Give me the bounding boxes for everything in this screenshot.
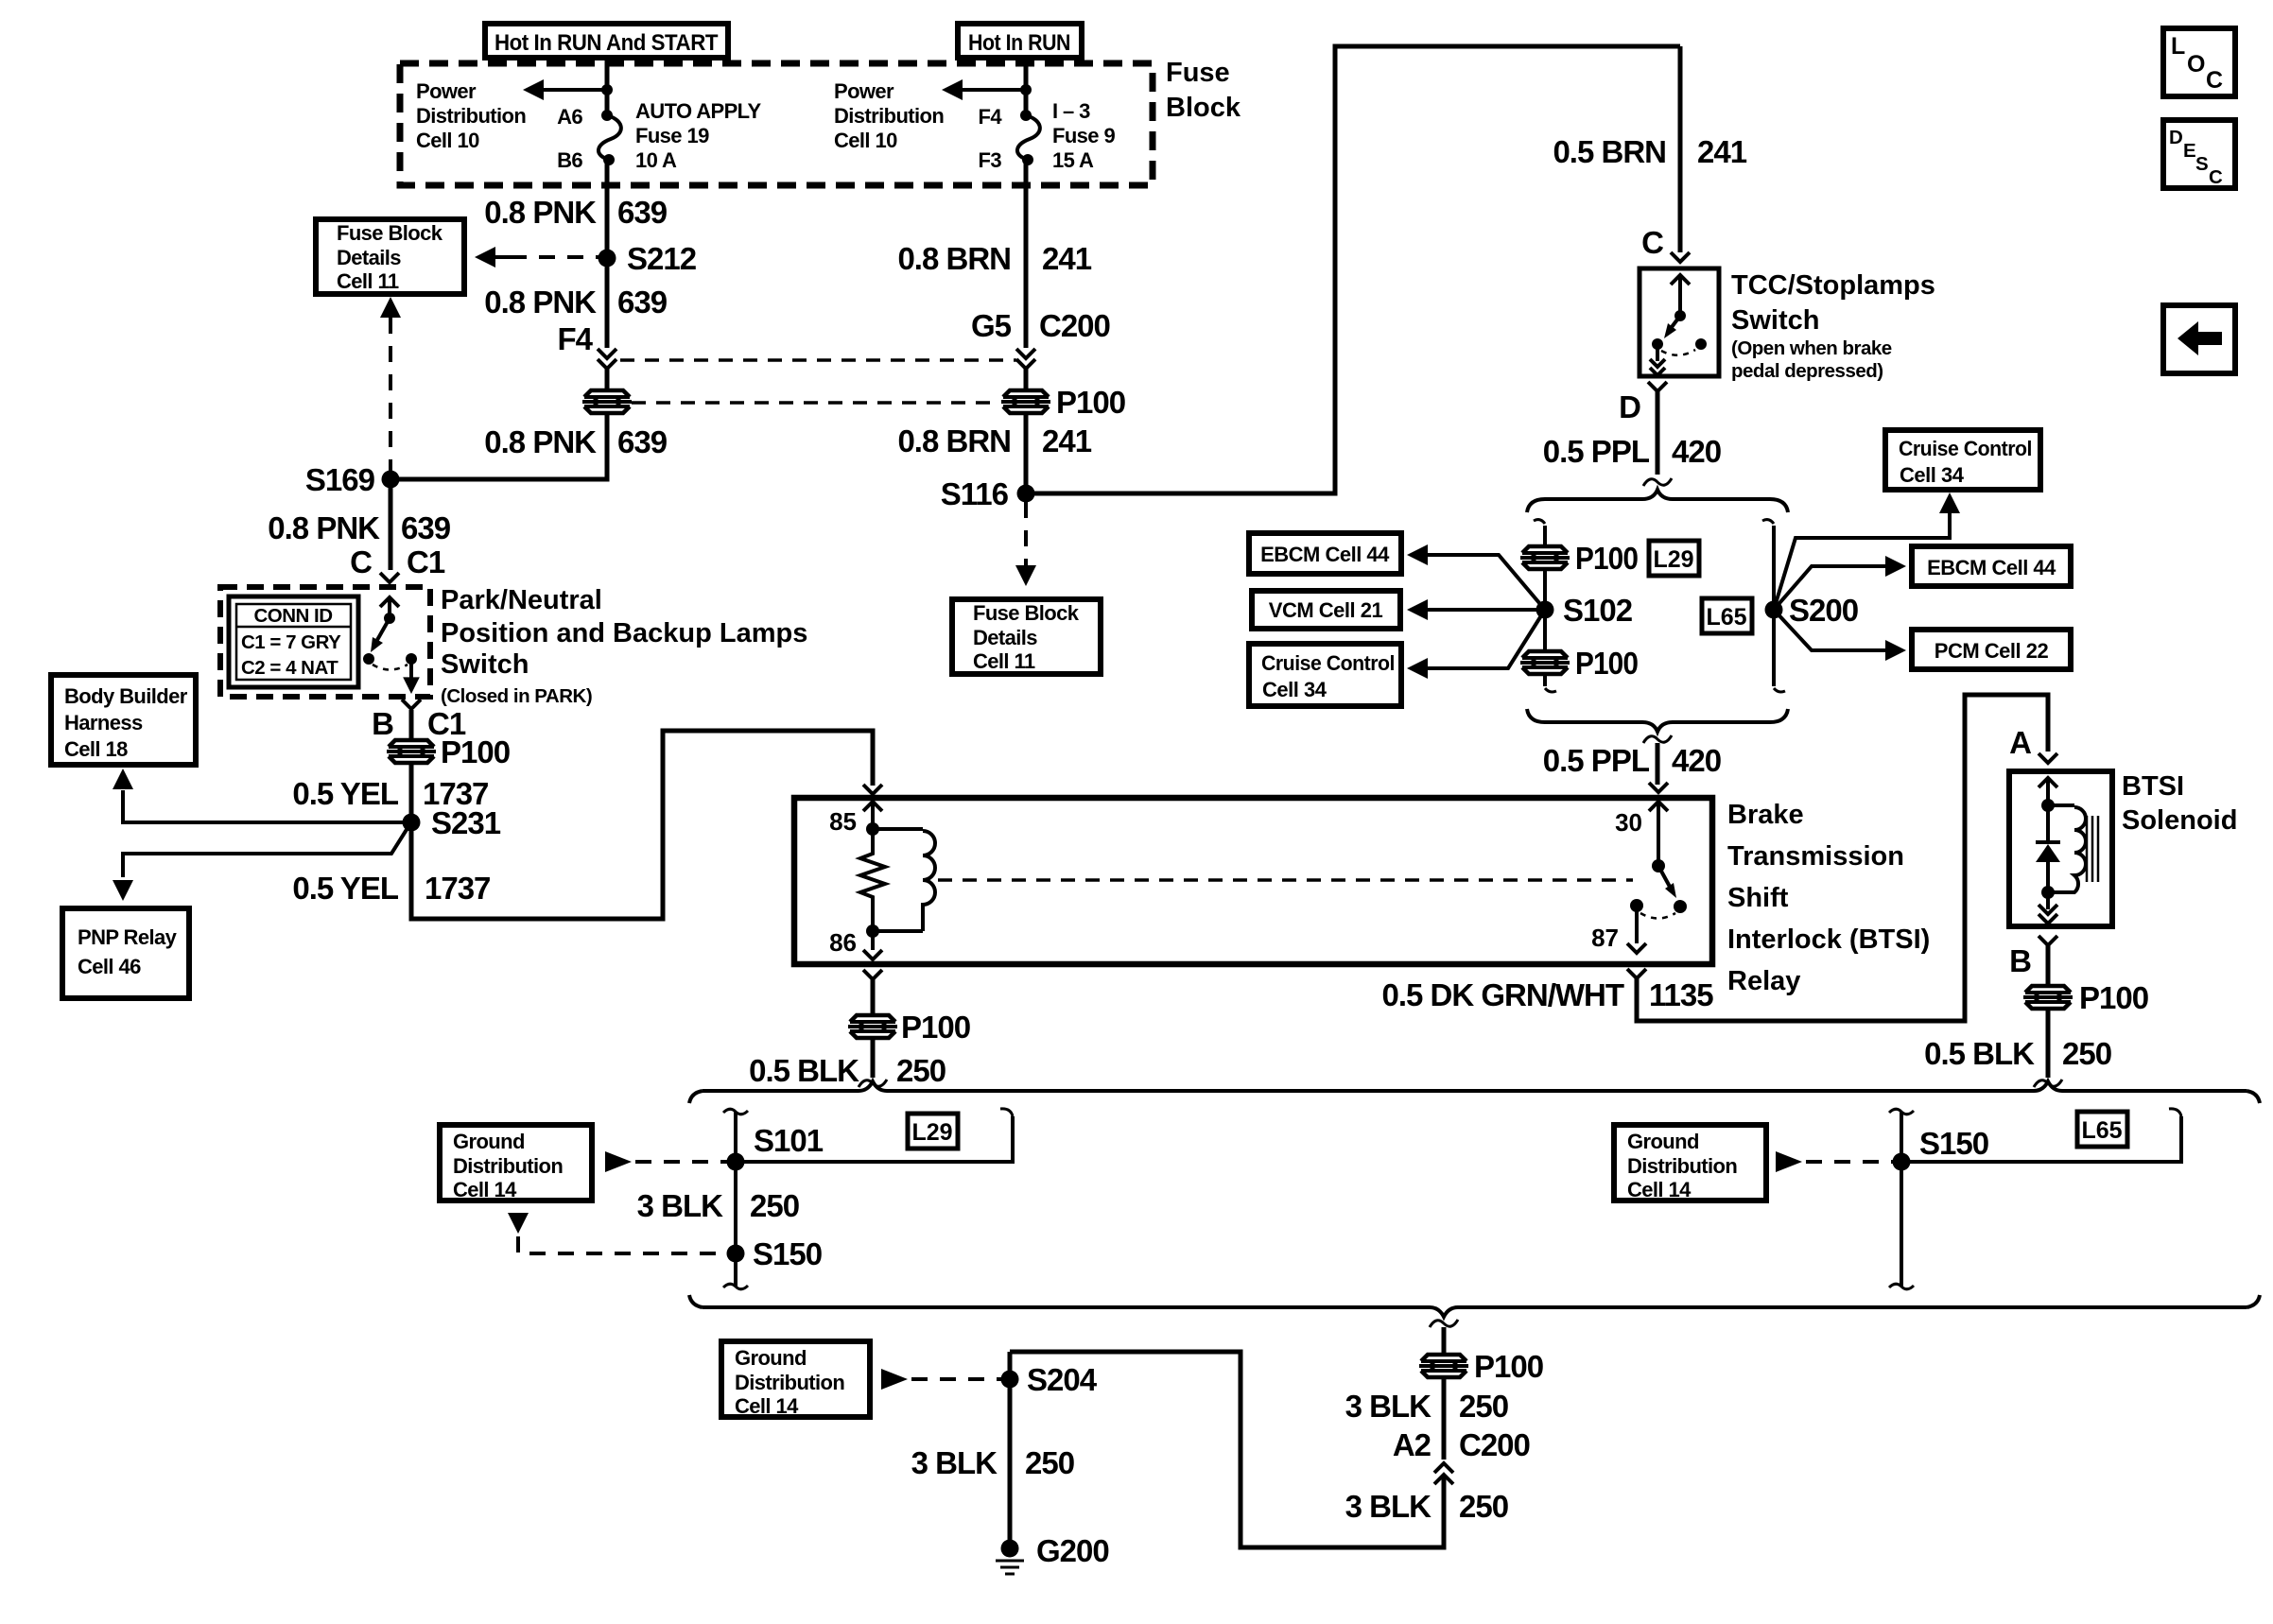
svg-text:0.5 BLK: 0.5 BLK	[749, 1053, 859, 1088]
wire: TCC D down to splice bundle	[1656, 391, 1660, 475]
wire: S231 diagonal down-left to PNP Relay arrow	[113, 828, 408, 901]
svg-text:Power: Power	[834, 79, 894, 103]
svg-text:S150: S150	[753, 1236, 822, 1271]
wire: dashed arrow from S212 to Fuse Block Details	[475, 247, 599, 268]
box: Ground Distribution Cell 14 (left)	[440, 1125, 592, 1201]
svg-text:EBCM Cell 44: EBCM Cell 44	[1927, 556, 2056, 579]
svg-text:Distribution: Distribution	[834, 104, 944, 128]
svg-text:C1: C1	[407, 544, 445, 579]
svg-text:Shift: Shift	[1727, 883, 1789, 913]
svg-text:Details: Details	[337, 246, 401, 269]
label: terminal C / C1	[350, 544, 445, 579]
svg-text:15 A: 15 A	[1052, 148, 1094, 172]
box: Body Builder Harness Cell 18	[51, 675, 196, 765]
resistor R1: relay coil shunt	[860, 829, 885, 931]
svg-text:241: 241	[1697, 134, 1747, 169]
svg-text:G200: G200	[1036, 1533, 1109, 1568]
svg-text:E: E	[2183, 140, 2195, 162]
svg-text:639: 639	[617, 424, 668, 459]
svg-text:EBCM Cell 44: EBCM Cell 44	[1260, 543, 1390, 566]
svg-text:I – 3: I – 3	[1052, 99, 1090, 123]
fuse F2: I-3 Fuse 9 15A	[1017, 110, 1040, 165]
svg-text:87: 87	[1591, 924, 1619, 952]
svg-text:Power: Power	[416, 79, 477, 103]
label: terminal G5 / C200	[971, 308, 1110, 343]
wire: P100 down to S231	[409, 763, 414, 831]
svg-text:0.5 PPL: 0.5 PPL	[1543, 434, 1650, 469]
svg-text:PCM Cell 22: PCM Cell 22	[1935, 639, 2049, 663]
box: VCM Cell 21	[1252, 591, 1400, 629]
svg-text:0.5 YEL: 0.5 YEL	[292, 776, 398, 811]
label: AUTO APPLY Fuse 19 10 A	[635, 99, 761, 172]
switch SW2: TCC/Stoplamps switch box	[1640, 268, 1719, 376]
svg-text:P100: P100	[1056, 385, 1125, 420]
wire: bus 3 BLK down from brace tip	[1430, 1320, 1458, 1327]
wire: dashed P100 bulkhead line	[632, 401, 1000, 405]
label: 0.8 PNK 639	[484, 195, 667, 230]
svg-text:250: 250	[2062, 1036, 2111, 1071]
svg-text:639: 639	[617, 195, 668, 230]
box: L29 tag (upper)	[1649, 541, 1699, 576]
wire: S150 to L65 riser	[1910, 1109, 2181, 1162]
pin 87	[1591, 906, 1646, 953]
svg-text:S101: S101	[754, 1123, 824, 1158]
svg-text:Hot In RUN And START: Hot In RUN And START	[495, 30, 719, 56]
svg-text:L65: L65	[1706, 604, 1746, 631]
relay K1: BTSI relay box	[794, 798, 1712, 964]
svg-text:0.8 BRN: 0.8 BRN	[897, 423, 1011, 458]
svg-text:Interlock (BTSI): Interlock (BTSI)	[1727, 924, 1930, 955]
connector: C1 chevron at switch	[380, 573, 399, 582]
svg-text:L29: L29	[1653, 546, 1693, 573]
connector: P100 grommet (BTSI ground)	[2022, 980, 2148, 1015]
svg-text:P100: P100	[901, 1010, 970, 1045]
node: junction on right feed	[1020, 84, 1032, 95]
connector: double chevron A2/C200	[1434, 1463, 1453, 1484]
svg-text:10 A: 10 A	[635, 148, 677, 172]
label: Brake Transmission Shift Interlock (BTSI) Relay	[1727, 800, 1930, 996]
wire: down to relay pin 30	[1656, 743, 1660, 785]
svg-text:Ground: Ground	[1627, 1130, 1699, 1153]
svg-text:P100: P100	[2079, 980, 2148, 1015]
svg-text:0.5 BRN: 0.5 BRN	[1553, 134, 1666, 169]
label: I-3 Fuse 9 15 A	[1052, 99, 1115, 172]
svg-text:0.5 BLK: 0.5 BLK	[1924, 1036, 2035, 1071]
label: 3 BLK 250 (bus left)	[637, 1188, 799, 1223]
svg-text:420: 420	[1672, 434, 1721, 469]
svg-text:250: 250	[1025, 1445, 1074, 1480]
svg-text:C: C	[350, 544, 372, 579]
svg-text:0.8 PNK: 0.8 PNK	[484, 424, 597, 459]
wire: S212 down to F4 connector	[605, 258, 610, 348]
svg-text:C1 = 7 GRY: C1 = 7 GRY	[241, 631, 341, 653]
svg-text:D: D	[1619, 389, 1640, 424]
svg-text:L65: L65	[2081, 1117, 2122, 1144]
svg-text:Ground: Ground	[453, 1130, 525, 1153]
label: 0.5 YEL 1737	[292, 776, 488, 811]
svg-text:250: 250	[896, 1053, 946, 1088]
svg-text:O: O	[2187, 51, 2205, 78]
node: splice S200	[1765, 593, 1859, 628]
svg-text:CONN ID: CONN ID	[253, 605, 332, 627]
svg-text:S212: S212	[627, 241, 697, 276]
svg-text:F4: F4	[557, 321, 593, 356]
connector: chevron at BTSI terminal A	[2039, 753, 2057, 763]
svg-text:B: B	[372, 706, 393, 741]
label: 3 BLK 250 (below C200)	[1345, 1489, 1508, 1524]
connector: chevron below relay pin 87	[1627, 969, 1646, 978]
wire: S200 arrow to PCM Cell 22	[1774, 610, 1906, 661]
svg-text:VCM Cell 21: VCM Cell 21	[1269, 598, 1383, 622]
wire: dashed actuation link from coil to contacts	[938, 878, 1633, 882]
label: 0.5 PPL 420 (upper)	[1543, 434, 1721, 469]
box: Fuse Block Details Cell 11 (center)	[952, 599, 1101, 674]
wire: arrow to Power Distribution (right fuse)	[942, 79, 1026, 100]
wire: strain squiggle at bus entry (right)	[2034, 1080, 2062, 1087]
wire: S231 left to Body Builder Harness arrow	[113, 769, 403, 822]
box: Cruise Control Cell 34 (left)	[1249, 644, 1401, 706]
svg-text:Ground: Ground	[735, 1346, 807, 1370]
label: 0.8 PNK 639 (S169 branch)	[268, 510, 450, 545]
wire: pin 87 down, right, up to BTSI A	[1637, 695, 2048, 1021]
svg-text:Brake: Brake	[1727, 800, 1804, 830]
box: L65 tag (upper)	[1702, 598, 1752, 633]
svg-text:Cell 34: Cell 34	[1262, 678, 1327, 701]
node: junction on left feed	[601, 84, 613, 95]
box: LOC legend	[2163, 28, 2235, 96]
box: PCM Cell 22	[1912, 630, 2071, 669]
wire: dashed up-arrow from S169 area to Fuse Block Details	[380, 297, 401, 473]
svg-text:A2: A2	[1393, 1427, 1431, 1462]
label: terminal B / C1	[372, 706, 466, 741]
bundle: S102 branch line	[1534, 520, 1556, 692]
svg-text:S204: S204	[1027, 1362, 1098, 1397]
label: 0.8 BRN 241	[897, 241, 1091, 276]
svg-text:S169: S169	[305, 462, 375, 497]
label: Power Distribution Cell 10 (left)	[416, 79, 526, 152]
svg-text:Cell 10: Cell 10	[834, 129, 897, 152]
svg-text:Fuse 9: Fuse 9	[1052, 124, 1115, 147]
connector: chevron into relay pin 85	[863, 785, 882, 794]
label: 0.5 DK GRN/WHT 1135	[1381, 977, 1713, 1012]
label: BTSI Solenoid	[2122, 771, 2237, 836]
bundle: S200 branch line	[1762, 520, 1785, 692]
wire: dashed arrow from Ground Distribution to S101	[605, 1151, 727, 1172]
switch SW1: park/neutral contacts	[363, 597, 420, 694]
label: 0.5 BRN 241 (top right)	[1553, 134, 1746, 169]
svg-text:S116: S116	[941, 476, 1009, 511]
svg-text:250: 250	[1459, 1489, 1508, 1524]
svg-text:Cell 14: Cell 14	[453, 1178, 517, 1201]
svg-text:0.8 PNK: 0.8 PNK	[268, 510, 380, 545]
svg-text:S200: S200	[1789, 593, 1858, 628]
bundle: S101/S150 branch line	[723, 1109, 748, 1289]
svg-text:F3: F3	[979, 148, 1002, 172]
svg-text:P100: P100	[1474, 1349, 1543, 1384]
label: Fuse Block	[1166, 58, 1241, 123]
svg-text:639: 639	[401, 510, 451, 545]
box: Ground Distribution Cell 14 (bottom)	[721, 1341, 870, 1418]
wire: strain squiggle below brace	[1643, 735, 1672, 743]
svg-text:241: 241	[1042, 241, 1092, 276]
switch SW2 contacts	[1650, 275, 1707, 375]
svg-text:P100: P100	[441, 734, 510, 769]
wire: dashed arrow from S116 down to Fuse Block Details	[1015, 502, 1036, 586]
svg-text:Cell 14: Cell 14	[735, 1394, 799, 1418]
fuse block dashed outline	[400, 63, 1153, 185]
svg-text:Park/Neutral: Park/Neutral	[441, 585, 602, 615]
svg-text:S: S	[2195, 153, 2208, 175]
wire: P100 down to S116	[1024, 413, 1029, 493]
svg-text:B6: B6	[557, 148, 582, 172]
svg-text:0.5 DK GRN/WHT: 0.5 DK GRN/WHT	[1381, 977, 1623, 1012]
svg-text:F4: F4	[979, 105, 1003, 129]
node: splice S212	[599, 241, 697, 276]
connector: P100 grommet (relay ground)	[847, 1010, 970, 1045]
svg-text:(Closed in PARK): (Closed in PARK)	[441, 685, 592, 707]
svg-text:C: C	[2206, 67, 2223, 94]
connector: P100 grommet (left pink wire)	[581, 389, 633, 415]
harness bus: bottom line	[703, 1307, 2247, 1317]
wire: dashed connector line C200 between F4 and G5	[620, 358, 1016, 362]
svg-text:Switch: Switch	[441, 649, 529, 680]
box: PNP Relay Cell 46	[62, 908, 189, 998]
solenoid core lines	[2087, 816, 2098, 882]
svg-text:C: C	[2209, 166, 2223, 188]
label: A2 C200	[1393, 1427, 1530, 1462]
box: L65 tag (bus)	[2077, 1112, 2127, 1147]
box: Ground Distribution Cell 14 (right)	[1614, 1125, 1766, 1201]
svg-text:Position and Backup Lamps: Position and Backup Lamps	[441, 618, 807, 648]
pin 86	[829, 924, 882, 959]
svg-text:S231: S231	[431, 805, 501, 840]
svg-text:Cell 46: Cell 46	[78, 955, 141, 978]
svg-text:BTSI: BTSI	[2122, 771, 2184, 802]
node: splice S150 (left)	[727, 1236, 823, 1271]
svg-text:1135: 1135	[1649, 977, 1713, 1012]
wire: from Hot In RUN down to fuse 9	[1024, 58, 1029, 115]
svg-text:TCC/Stoplamps: TCC/Stoplamps	[1731, 270, 1935, 301]
connector: B/C1 chevron below switch	[402, 700, 421, 709]
wire: dashed from Ground Distribution down to S150	[508, 1213, 727, 1253]
svg-text:AUTO APPLY: AUTO APPLY	[635, 99, 761, 123]
svg-text:Fuse Block: Fuse Block	[973, 601, 1080, 625]
svg-text:P100: P100	[1575, 646, 1638, 681]
wire: P100 down to ground bus	[2046, 1009, 2051, 1078]
label: 0.8 PNK 639 (third)	[484, 424, 667, 459]
svg-text:S150: S150	[1919, 1126, 1988, 1161]
diode D1: clamp diode	[2036, 842, 2060, 862]
svg-text:0.8 BRN: 0.8 BRN	[897, 241, 1011, 276]
svg-text:3 BLK: 3 BLK	[637, 1188, 724, 1223]
svg-text:C200: C200	[1459, 1427, 1530, 1462]
svg-text:Cell 11: Cell 11	[973, 649, 1035, 673]
wire: down to TCC switch terminal C	[1678, 46, 1683, 252]
connector: chevron at TCC terminal C	[1671, 252, 1690, 262]
wire: C200 down, left, up to S204 leg	[1010, 1352, 1444, 1547]
brace: bottom of splice group	[1527, 709, 1788, 732]
box: Hot In RUN	[958, 24, 1082, 58]
node: splice S231	[403, 805, 501, 840]
connector: P100 grommet (brown wire)	[1000, 385, 1125, 420]
svg-text:420: 420	[1672, 743, 1721, 778]
wire: arrow to Power Distribution (left fuse)	[523, 79, 607, 100]
svg-text:Cruise Control: Cruise Control	[1899, 437, 2032, 460]
svg-text:241: 241	[1042, 423, 1092, 458]
label: 0.8 PNK 639 (second)	[484, 285, 667, 320]
wire: P100 to ground bus	[871, 1038, 876, 1078]
svg-text:L: L	[2171, 33, 2185, 60]
connector: P100 grommet (main ground lead)	[1418, 1349, 1543, 1384]
svg-text:3 BLK: 3 BLK	[1345, 1489, 1432, 1524]
harness bus: top line	[703, 1081, 2247, 1091]
svg-text:Harness: Harness	[64, 711, 143, 734]
wire: P100 down, turn left to S169	[390, 413, 607, 479]
wire: strain squiggle above brace	[1643, 478, 1672, 486]
box: L29 tag (bus)	[908, 1114, 958, 1149]
inductor L1: relay coil	[873, 829, 935, 931]
wire: chevron to P100 (brown)	[1024, 369, 1029, 389]
svg-text:Cell 14: Cell 14	[1627, 1178, 1692, 1201]
svg-text:Cell 18: Cell 18	[64, 737, 128, 761]
svg-text:250: 250	[750, 1188, 799, 1223]
svg-text:C200: C200	[1039, 308, 1110, 343]
wire: S102 arrow to EBCM Cell 44	[1407, 544, 1545, 610]
wire: dashed arrow from Ground Distribution to S204	[881, 1369, 1001, 1390]
inductor L2: solenoid coil	[2048, 805, 2086, 892]
svg-text:S102: S102	[1563, 593, 1633, 628]
connector: G5 male arrow + female chevron	[1016, 349, 1035, 369]
solenoid: BTSI solenoid box	[2009, 771, 2112, 926]
svg-text:B: B	[2009, 943, 2031, 978]
solenoid internals	[2039, 778, 2057, 844]
svg-text:Cell 34: Cell 34	[1900, 463, 1965, 487]
wire: S200 arrow to EBCM Cell 44 (right)	[1774, 556, 1906, 610]
svg-text:G5: G5	[971, 308, 1012, 343]
wire: pin 86 to P100	[871, 979, 876, 1015]
label: 3 BLK 250 (above C200)	[1345, 1389, 1508, 1424]
svg-text:C: C	[1641, 225, 1663, 260]
box: CONN ID table	[229, 596, 358, 687]
svg-text:Solenoid: Solenoid	[2122, 805, 2237, 836]
svg-text:D: D	[2169, 127, 2182, 148]
connector: chevron below TCC terminal D	[1648, 382, 1667, 391]
box: Hot In RUN And START	[485, 24, 728, 58]
wire: chevron to P100 (left)	[605, 369, 610, 389]
svg-text:Body Builder: Body Builder	[64, 684, 188, 708]
svg-text:Block: Block	[1166, 93, 1241, 123]
wire: fuse 9 output down to G5 connector	[1024, 160, 1029, 348]
pin 30	[1615, 802, 1668, 872]
node: splice S169	[305, 462, 400, 497]
svg-text:Distribution: Distribution	[1627, 1154, 1737, 1178]
box: back-arrow legend	[2163, 305, 2235, 373]
node: splice S204	[1001, 1362, 1098, 1397]
wire: from Hot In RUN And START down to fuse 19	[605, 58, 610, 115]
connector: chevron below BTSI terminal B	[2039, 936, 2057, 945]
brace: top of splice group	[1527, 490, 1788, 512]
svg-text:Fuse 19: Fuse 19	[635, 124, 709, 147]
svg-text:Switch: Switch	[1731, 305, 1819, 336]
pin 85	[829, 802, 882, 836]
fuse F1: AUTO APPLY Fuse 19 10A	[599, 110, 621, 165]
node: splice S101	[727, 1123, 824, 1171]
svg-text:1737: 1737	[425, 871, 490, 906]
node: splice S150 (right)	[1893, 1126, 1989, 1171]
wire: BTSI B down to P100	[2046, 945, 2051, 986]
svg-text:C2 = 4 NAT: C2 = 4 NAT	[241, 657, 338, 679]
svg-text:L29: L29	[911, 1119, 952, 1146]
wire: S231 down, right, up to relay pin 85	[411, 731, 873, 919]
wire: S116 right and up to top run toward TCC switch	[1026, 46, 1680, 493]
svg-text:85: 85	[829, 807, 857, 836]
svg-text:A6: A6	[557, 105, 582, 129]
svg-text:Cell 10: Cell 10	[416, 129, 479, 152]
svg-text:3 BLK: 3 BLK	[1345, 1389, 1432, 1424]
label: 0.5 YEL 1737 (lower)	[292, 871, 490, 906]
wire: S169 down to park/neutral switch	[389, 479, 393, 570]
box: Cruise Control Cell 34 (top right)	[1885, 430, 2040, 490]
label: Park/Neutral Position and Backup Lamps Switch	[441, 585, 807, 707]
svg-text:0.8 PNK: 0.8 PNK	[484, 285, 597, 320]
svg-text:PNP Relay: PNP Relay	[78, 925, 178, 949]
wire: S102 arrow to VCM Cell 21	[1407, 599, 1545, 620]
label: 0.5 PPL 420 (lower)	[1543, 743, 1721, 778]
svg-text:P100: P100	[1575, 541, 1638, 576]
wire: P100 down to C200 connector	[1442, 1377, 1447, 1460]
wire: dashed arrow from Ground Distribution to S150 (right)	[1776, 1151, 1893, 1172]
label: 0.5 BLK 250 (BTSI)	[1924, 1036, 2111, 1071]
svg-text:Fuse Block: Fuse Block	[337, 221, 443, 245]
wire: S102 arrow to Cruise Control Cell 34 (left)	[1407, 610, 1545, 679]
connector: P100 grommet (upper, S102 branch)	[1519, 541, 1638, 576]
svg-text:Details: Details	[973, 626, 1037, 649]
box: EBCM Cell 44 (left)	[1249, 533, 1401, 574]
svg-text:pedal depressed): pedal depressed)	[1731, 360, 1883, 382]
node: splice S116	[941, 476, 1035, 511]
connector: chevron below relay pin 86	[863, 970, 882, 979]
svg-text:250: 250	[1459, 1389, 1508, 1424]
box: EBCM Cell 44 (right)	[1912, 546, 2071, 586]
connector: chevron into relay pin 30	[1649, 783, 1668, 792]
connector: F4 male arrow + female chevron	[598, 349, 616, 369]
svg-text:Transmission: Transmission	[1727, 841, 1904, 872]
label: 0.8 BRN 241 (below P100)	[897, 423, 1091, 458]
svg-text:0.5 PPL: 0.5 PPL	[1543, 743, 1650, 778]
svg-text:30: 30	[1615, 808, 1642, 837]
wire: switch B down to P100	[409, 710, 414, 740]
label: TCC/Stoplamps Switch	[1731, 270, 1935, 382]
label: Power Distribution Cell 10 (right)	[834, 79, 944, 152]
svg-text:Cruise Control: Cruise Control	[1261, 651, 1395, 675]
box: DESC legend	[2163, 120, 2235, 188]
svg-text:Relay: Relay	[1727, 966, 1800, 996]
svg-text:0.5 YEL: 0.5 YEL	[292, 871, 398, 906]
svg-text:Hot In RUN: Hot In RUN	[968, 30, 1070, 56]
svg-text:0.8 PNK: 0.8 PNK	[484, 195, 597, 230]
box: Fuse Block Details Cell 11 (left)	[316, 219, 464, 294]
svg-text:639: 639	[617, 285, 668, 320]
ground G200	[996, 1533, 1109, 1574]
wire: S204 up stub	[1008, 1352, 1013, 1379]
node: splice S102	[1536, 593, 1633, 628]
connector: P100 grommet (yellow wire)	[386, 734, 510, 769]
svg-text:86: 86	[829, 928, 857, 957]
svg-text:(Open when brake: (Open when brake	[1731, 337, 1892, 359]
switch: relay contact blade 30-87	[1630, 866, 1687, 919]
wire: S200 up-right arrow to Cruise Control Cell 34 (top)	[1774, 492, 1960, 610]
bundle: S150 branch line (right)	[1889, 1109, 1914, 1289]
